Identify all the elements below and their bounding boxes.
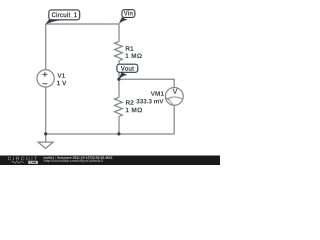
label R2 xyxy=(126,100,134,105)
value 1 V of V1 xyxy=(57,81,66,85)
wire V1 bottom lead xyxy=(45,87,47,134)
flag text Vout xyxy=(121,66,134,71)
wire R1 top lead xyxy=(118,24,120,42)
value 333.3 mV of VM1 xyxy=(136,99,163,103)
footer logo LAB box xyxy=(28,161,38,164)
flag text Circuit_1 xyxy=(52,12,77,18)
footer logo LAB xyxy=(30,161,36,163)
junction node bottom mid xyxy=(117,132,120,135)
wire bottom return xyxy=(46,133,175,135)
wire ground stub xyxy=(45,134,47,142)
wire R1 bottom lead to node Vout xyxy=(118,61,120,80)
V1 plus sign xyxy=(42,72,47,84)
footer logo CIRCUIT xyxy=(8,157,37,161)
flag tail Circuit_1 xyxy=(45,20,62,25)
wire node Vout to voltmeter xyxy=(119,79,174,87)
wire R2 bottom lead xyxy=(118,117,120,135)
flag tail Vin xyxy=(119,17,128,24)
voltmeter V letter xyxy=(173,89,178,94)
flag tail Vout xyxy=(119,72,128,79)
wire voltmeter bottom lead xyxy=(173,105,175,134)
voltmeter tick 2 xyxy=(170,97,173,98)
label VM1 xyxy=(151,91,164,95)
footer bar xyxy=(0,156,220,166)
value 1 MΩ of R2 xyxy=(126,108,142,113)
resistor R2 xyxy=(115,97,123,116)
junction node Vout xyxy=(117,78,120,81)
ground xyxy=(38,142,53,148)
voltage source V1 body xyxy=(37,70,54,87)
flag box Vout xyxy=(117,64,138,72)
flag box Circuit_1 xyxy=(49,10,80,20)
footer info line 2 xyxy=(44,159,103,162)
value 1 MΩ of R1 xyxy=(126,53,142,58)
voltmeter needle xyxy=(167,98,174,105)
flag box Vin xyxy=(122,10,135,18)
wire V1 top lead xyxy=(45,24,47,70)
wire R2 top lead xyxy=(118,79,120,97)
footer info line 1 xyxy=(44,156,113,158)
flag text Vin xyxy=(124,10,133,15)
junction node bottom left xyxy=(44,132,47,135)
voltmeter VM1 body xyxy=(165,88,183,106)
footer logo zigzag xyxy=(12,161,25,163)
voltmeter tick 1 xyxy=(168,98,171,99)
V1 minus sign xyxy=(42,83,47,85)
label R1 xyxy=(126,46,134,50)
resistor R1 xyxy=(115,42,123,61)
label V1 xyxy=(57,73,65,77)
voltmeter VM1 face arc xyxy=(166,97,182,105)
wire top run node Vin xyxy=(46,23,119,25)
